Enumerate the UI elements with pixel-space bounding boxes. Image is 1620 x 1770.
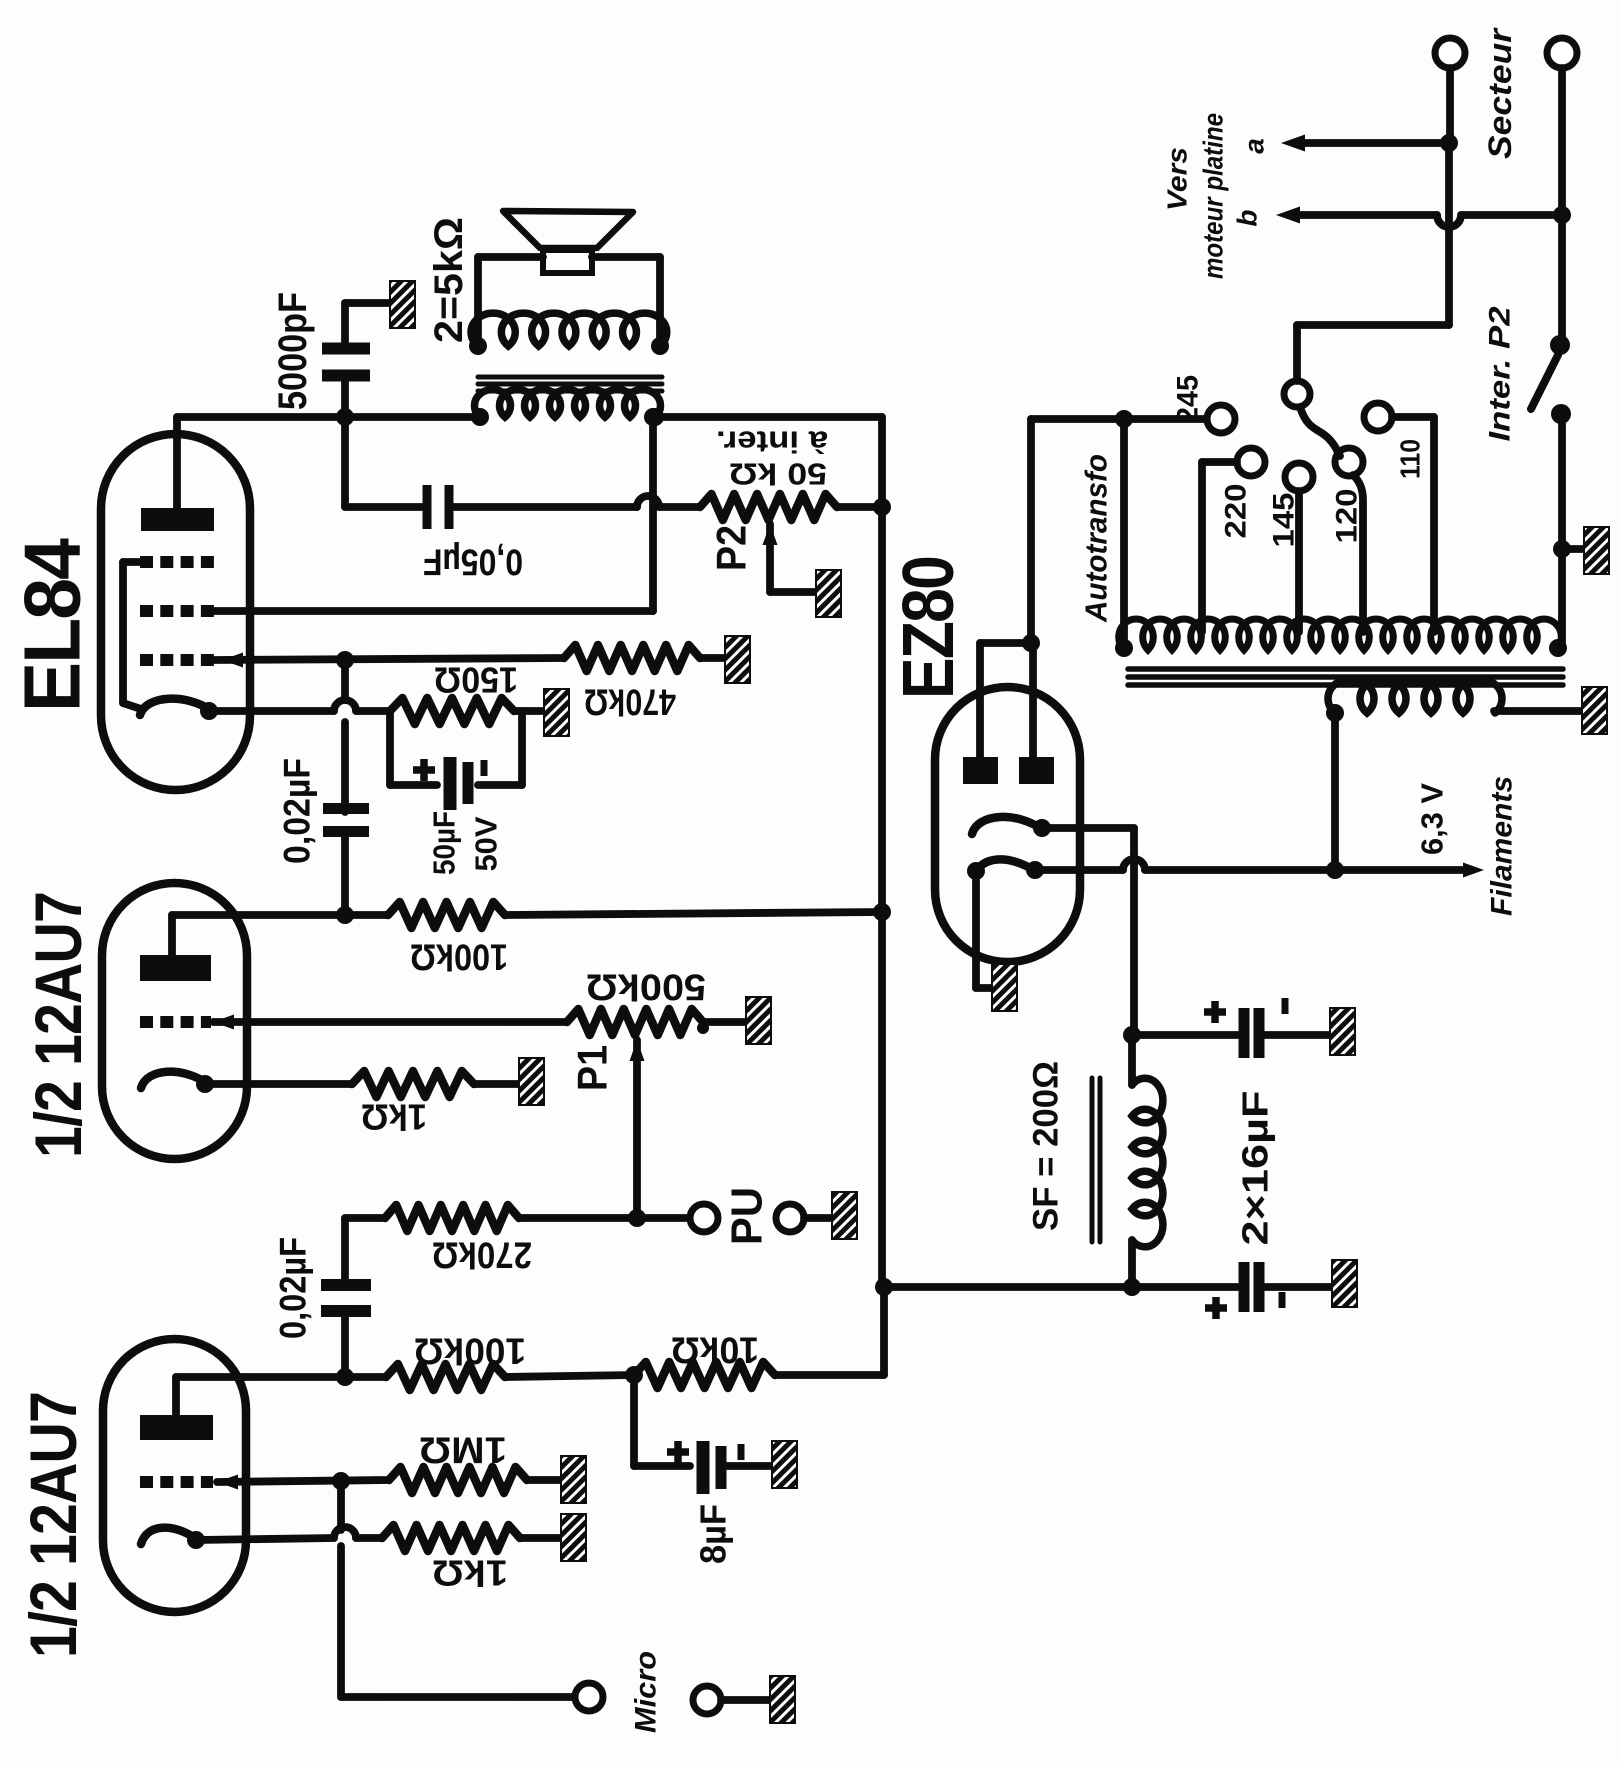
label 1MOhm <box>419 1430 507 1471</box>
label 50 kOhm <box>729 457 827 492</box>
autotransformer winding <box>1119 619 1562 650</box>
ground for 470k <box>725 636 750 683</box>
junction B+ rail bottom <box>875 1278 893 1296</box>
label 8uF <box>693 1504 734 1564</box>
svg-text:1kΩ: 1kΩ <box>432 1553 508 1594</box>
label 100kOhm bot <box>414 1331 526 1372</box>
resistor 10k decoupling <box>634 1362 775 1388</box>
svg-text:2=5kΩ: 2=5kΩ <box>427 217 471 343</box>
tube 12AU7-b envelope <box>102 883 247 1159</box>
wire 8uF branch <box>634 1375 690 1466</box>
choke SF winding <box>1132 1078 1163 1247</box>
junction secondary right <box>651 337 669 355</box>
wire 470k to ground <box>700 654 725 662</box>
junction a <box>1440 134 1458 152</box>
svg-text:5000pF: 5000pF <box>271 292 315 410</box>
svg-text:10kΩ: 10kΩ <box>671 1330 759 1371</box>
wire secteur2 down <box>1558 68 1566 215</box>
choke SF wire bottom <box>1128 1240 1136 1287</box>
label 120 <box>1331 489 1364 544</box>
ground for filament winding <box>1582 687 1607 734</box>
wire PU gnd <box>804 1214 832 1222</box>
tube 12AU7-a envelope <box>103 1339 246 1612</box>
grid arrow 12AU7-a <box>217 1475 238 1490</box>
svg-text:100kΩ: 100kΩ <box>410 937 508 978</box>
label 6.3V <box>1415 783 1450 855</box>
wire mains ground stub <box>1562 545 1584 553</box>
svg-text:Secteur: Secteur <box>1482 27 1518 159</box>
capacitor 5000pF <box>322 303 390 417</box>
tube 12AU7-b anode lead <box>172 915 388 955</box>
terminal 110 <box>1364 403 1392 431</box>
minus sign cap2 <box>1279 1292 1286 1308</box>
tube EZ80 heater <box>975 859 1035 875</box>
wire secteur1 to selector <box>1445 143 1453 325</box>
ground for 150R <box>544 689 569 736</box>
wire 0.05uF to P2 <box>451 503 700 511</box>
label 500kOhm <box>586 967 706 1008</box>
label 470kOhm <box>584 682 676 723</box>
resistor 1k (12AU7-b cathode) <box>352 1071 474 1097</box>
svg-text:110: 110 <box>1395 439 1426 479</box>
wire P2 to B+ rail <box>837 503 882 511</box>
label 245 <box>1172 375 1205 423</box>
resistor 1M grid leak <box>389 1467 527 1493</box>
svg-text:0,02µF: 0,02µF <box>277 758 318 864</box>
wire cap to 270k <box>345 1214 385 1222</box>
label PU <box>723 1187 772 1245</box>
ground for 8uF <box>772 1441 797 1488</box>
label Micro <box>630 1651 663 1733</box>
grid arrow 12AU7-b <box>213 1015 234 1030</box>
junction filament winding left <box>1326 704 1344 722</box>
junction g1/coupling cap <box>336 651 354 669</box>
wire screen g2 to B+ <box>214 417 653 611</box>
label 110 <box>1395 439 1426 479</box>
ground for mains <box>1584 527 1609 574</box>
label 1kOhm bot <box>432 1553 508 1594</box>
tube 12AU7-a cathode <box>141 1528 198 1544</box>
svg-text:245: 245 <box>1172 375 1205 423</box>
wire primary right to B+ rail corner <box>655 413 882 421</box>
junction 6.3V/filament winding <box>1326 861 1344 879</box>
speaker frame left <box>478 257 543 346</box>
junction secondary left <box>469 337 487 355</box>
junction EZ80 cathode <box>1033 819 1051 837</box>
junction P1 right <box>697 1022 709 1034</box>
wire EZ80 anodes to 245V tap <box>1031 419 1124 643</box>
svg-text:120: 120 <box>1331 489 1364 544</box>
transformer core laminations <box>478 377 662 391</box>
wire 0.05uF branch <box>345 417 425 507</box>
junction b <box>1553 206 1571 224</box>
switch Inter P2 top contact <box>1550 215 1570 355</box>
svg-text:Autotransfo: Autotransfo <box>1079 454 1114 623</box>
svg-text:1/2 12AU7: 1/2 12AU7 <box>21 892 95 1158</box>
capacitor 0.02uF coupling top <box>323 660 369 915</box>
selector S-curve to 120 tap <box>1300 407 1340 456</box>
svg-text:1/2 12AU7: 1/2 12AU7 <box>16 1392 90 1658</box>
terminal PU hot <box>690 1204 718 1232</box>
label 5000pF <box>271 292 315 410</box>
svg-text:220: 220 <box>1220 484 1253 539</box>
junction heater left <box>967 862 985 880</box>
junction cathode-b dot <box>196 1075 214 1093</box>
junction grid-a/micro <box>332 1472 350 1490</box>
speaker frame right <box>592 257 660 346</box>
label 12AU7-a <box>16 1392 90 1658</box>
label 2x16uF <box>1235 1091 1276 1246</box>
svg-text:Micro: Micro <box>630 1651 663 1733</box>
tube 12AU7-b grid (dashed) <box>140 1016 211 1028</box>
ground for cap2 <box>1332 1260 1357 1307</box>
speaker cone <box>503 211 633 248</box>
transformer primary winding <box>475 389 661 417</box>
wire tap 110 <box>1392 417 1434 632</box>
label 270kOhm <box>432 1235 532 1276</box>
label P1 <box>569 1045 616 1091</box>
label Filaments <box>1486 776 1519 916</box>
wire switch to winding end <box>1558 414 1562 650</box>
tube EZ80 anode leads <box>980 643 1033 757</box>
svg-text:500kΩ: 500kΩ <box>586 967 706 1008</box>
svg-text:moteur platine: moteur platine <box>1198 113 1229 279</box>
arrow filaments <box>1463 863 1484 878</box>
tube EZ80 anode 1 <box>963 757 998 784</box>
ground for 5000pF <box>390 281 415 328</box>
terminal 120 <box>1335 448 1363 476</box>
wire cap2 to ground <box>1265 1283 1332 1291</box>
capacitor 16uF no.2 <box>1244 1262 1259 1312</box>
speaker voice coil <box>543 250 592 273</box>
capacitor 16uF no.1 <box>1244 1008 1259 1058</box>
wire selector to mains <box>1297 325 1449 381</box>
terminal Micro gnd <box>693 1686 721 1714</box>
arrowhead a <box>1281 135 1305 152</box>
svg-text:100kΩ: 100kΩ <box>414 1331 526 1372</box>
junction choke/B rail <box>1123 1278 1141 1296</box>
junction cathode dot <box>200 702 218 720</box>
resistor 100k (12AU7-a plate load) <box>386 1364 505 1390</box>
tube 12AU7-a anode lead <box>176 1377 386 1415</box>
filament winding <box>1328 679 1502 713</box>
svg-text:6,3 V: 6,3 V <box>1415 783 1450 855</box>
label 12AU7-b <box>21 892 95 1158</box>
hop cathode over coupling-cap wire <box>334 700 356 711</box>
junction plate-b/coupling <box>336 906 354 924</box>
svg-text:50 kΩ: 50 kΩ <box>729 457 827 492</box>
label a <box>1239 138 1270 154</box>
plus sign cap1 <box>1204 1001 1226 1023</box>
terminal Secteur 1 <box>1435 38 1465 68</box>
wire 1k-b to ground <box>474 1080 519 1088</box>
wire heater to ground <box>976 871 992 988</box>
wire micro line <box>341 1481 575 1697</box>
wire grid-b to P1 <box>213 1018 567 1026</box>
svg-text:150Ω: 150Ω <box>434 660 518 701</box>
tube EL84 cathode <box>140 699 212 715</box>
tube EL84 anode plate <box>141 508 214 531</box>
svg-text:P2: P2 <box>708 525 755 571</box>
resistor 100k (12AU7-b plate load) <box>388 902 505 928</box>
potentiometer P1 500k element <box>567 1009 703 1035</box>
svg-text:Filaments: Filaments <box>1486 776 1519 916</box>
wire 1k-a to ground <box>520 1534 561 1542</box>
junction P1 wiper/PU line <box>628 1209 646 1227</box>
wire tap 120 <box>1353 475 1363 632</box>
label P2 <box>708 525 755 571</box>
svg-text:Inter. P2: Inter. P2 <box>1484 306 1517 441</box>
plus sign 8uF <box>667 1441 689 1463</box>
wire 100k to B+ rail <box>505 912 882 915</box>
label 1kOhm mid <box>361 1097 427 1138</box>
wire micro gnd <box>721 1696 770 1704</box>
wire arrow a <box>1296 139 1449 147</box>
wire autotransfo top <box>1120 419 1128 650</box>
ground for P2 wiper <box>816 570 841 617</box>
svg-text:P1: P1 <box>569 1045 616 1091</box>
svg-text:PU: PU <box>723 1187 772 1245</box>
junction plate-a/coupling <box>336 1368 354 1386</box>
junction autotransfo bottom end <box>1549 639 1567 657</box>
svg-text:à inter.: à inter. <box>716 425 828 460</box>
ground for P1 <box>746 997 771 1044</box>
tube 12AU7-b cathode <box>141 1072 208 1088</box>
label 2=5kOhm <box>427 217 471 343</box>
terminal Secteur 2 <box>1547 38 1577 68</box>
tube EL84 envelope <box>101 434 250 790</box>
tube 12AU7-a grid (dashed) <box>140 1476 213 1488</box>
minus sign 50uF <box>481 760 488 776</box>
ground for cap1 <box>1330 1008 1355 1055</box>
wire 270k to PU <box>519 1214 690 1222</box>
svg-text:SF = 200Ω: SF = 200Ω <box>1027 1061 1066 1231</box>
ground for PU <box>832 1192 857 1239</box>
label 0.02uF bottom <box>273 1237 314 1339</box>
svg-text:a: a <box>1239 138 1270 154</box>
wire filter node to cap1 <box>1132 1031 1239 1039</box>
junction filter node 1 <box>1123 1026 1141 1044</box>
resistor 470k <box>564 645 700 671</box>
wire filament winding right to ground <box>1494 707 1582 715</box>
terminal 245 <box>1207 405 1235 433</box>
ground for 1k-a <box>561 1514 586 1561</box>
label 145 <box>1268 493 1301 548</box>
wire 10k to B+ rail <box>775 1287 884 1375</box>
svg-text:EZ80: EZ80 <box>889 557 969 699</box>
junction primary right <box>646 408 664 426</box>
switch Inter P2 bottom contact <box>1551 404 1571 424</box>
label EZ80 <box>889 557 969 699</box>
label 220 <box>1220 484 1253 539</box>
junction plate/5000pF/0.05uF node <box>336 408 354 426</box>
label 0.05uF <box>423 542 523 583</box>
tube EL84 control grid g1 (dashed) <box>140 654 214 666</box>
tube EL84 suppressor grid g3 (dashed) <box>140 556 214 568</box>
tube EZ80 anode 2 <box>1019 757 1054 784</box>
junction 100k/B+ rail <box>873 903 891 921</box>
junction screen/primary right <box>644 408 662 426</box>
junction 10k/8uF node <box>625 1366 643 1384</box>
hop 6.3V over cathode wire <box>1123 859 1145 870</box>
svg-text:50µF: 50µF <box>427 811 462 875</box>
tube EZ80 cathode <box>972 817 1043 834</box>
tube EZ80 envelope <box>935 687 1080 962</box>
ground for EZ80 heater <box>992 964 1017 1011</box>
label Secteur <box>1482 27 1518 159</box>
transformer secondary winding <box>471 313 667 346</box>
plus sign cap2 <box>1205 1297 1227 1319</box>
hop over screen wire <box>637 496 659 507</box>
wire EZ80 cathode to filter <box>1042 828 1134 1035</box>
svg-text:270kΩ: 270kΩ <box>432 1235 532 1276</box>
tube 12AU7-b anode plate <box>140 955 211 981</box>
resistor 1k (12AU7-a cathode) <box>382 1525 520 1551</box>
tube EL84 screen grid g2 (dashed) <box>140 605 214 617</box>
minus sign cap1 <box>1282 998 1289 1014</box>
wire secteur1 down <box>1446 68 1454 143</box>
junction P2/B+ rail <box>873 498 891 516</box>
label EL84 <box>8 538 97 712</box>
label 50uF <box>427 811 462 875</box>
capacitor 50uF <box>450 757 468 810</box>
choke SF wire top <box>1128 1035 1136 1085</box>
switch Inter P2 lever <box>1531 355 1558 409</box>
label Autotransfo <box>1079 454 1114 623</box>
wire filament winding left down <box>1331 713 1339 870</box>
svg-text:Vers: Vers <box>1162 147 1193 211</box>
svg-text:2×16µF: 2×16µF <box>1235 1091 1276 1246</box>
label 10kOhm <box>671 1330 759 1371</box>
label Vers <box>1162 147 1193 211</box>
wire tap 220 <box>1202 462 1237 632</box>
wire 50uF parallel loop <box>390 711 522 785</box>
ground for 1M <box>561 1456 586 1503</box>
terminal 220 <box>1237 448 1265 476</box>
svg-text:b: b <box>1232 209 1263 226</box>
wire cathode-a to 1k <box>198 1538 382 1540</box>
wire cap1 to ground <box>1265 1031 1330 1039</box>
wire grid-a <box>217 1480 389 1482</box>
resistor 270k <box>385 1205 519 1231</box>
tube 12AU7-a anode plate <box>140 1415 213 1440</box>
terminal selector common <box>1284 381 1310 407</box>
svg-text:0,05µF: 0,05µF <box>423 542 523 583</box>
junction mains ground <box>1553 540 1571 558</box>
wire EL84 plate to output transformer <box>345 413 480 421</box>
ground for 1k-b <box>519 1058 544 1105</box>
tube EL84 anode lead <box>177 417 345 508</box>
wire B+ rail vertical <box>878 417 886 1287</box>
terminal PU gnd <box>776 1204 804 1232</box>
junction heater right <box>1026 861 1044 879</box>
plus sign 50uF <box>413 759 435 781</box>
label b <box>1232 209 1263 226</box>
wire g1 to 470k <box>214 658 564 660</box>
wire 1M to ground <box>527 1476 561 1484</box>
label SF 200 <box>1027 1061 1066 1231</box>
label 150Ohm <box>434 660 518 701</box>
junction autotransfo top <box>1115 639 1133 657</box>
arrowhead b <box>1276 207 1300 224</box>
label 0.02uF top <box>277 758 318 864</box>
terminal 145 <box>1285 463 1313 491</box>
svg-text:1kΩ: 1kΩ <box>361 1097 427 1138</box>
svg-text:8µF: 8µF <box>693 1504 734 1564</box>
terminal Micro hot <box>575 1683 603 1711</box>
ground for Micro <box>770 1676 795 1723</box>
junction EZ80 anodes <box>1022 634 1040 652</box>
potentiometer P2 50k element <box>700 494 837 520</box>
wire 8uF to ground <box>727 1462 772 1470</box>
label a inter. <box>716 425 828 460</box>
hop b-wire over vertical <box>1437 215 1461 227</box>
hop cathode-a over micro wire <box>334 1527 356 1538</box>
capacitor 0.05uF <box>427 485 449 529</box>
wire 6.3V rail <box>1035 866 1472 874</box>
tube EL84 g3-to-cathode link <box>123 562 145 709</box>
grid arrow EL84 <box>222 653 243 668</box>
minus sign 8uF <box>738 1444 745 1460</box>
junction 245 rail <box>1115 410 1133 428</box>
svg-text:0,02µF: 0,02µF <box>273 1237 314 1339</box>
capacitor 0.02uF coupling bottom <box>321 1218 371 1377</box>
svg-text:50V: 50V <box>469 816 504 871</box>
svg-text:EL84: EL84 <box>8 538 97 712</box>
label 100kOhm mid <box>410 937 508 978</box>
wire cathode-b to 1k <box>208 1080 352 1088</box>
capacitor 8uF <box>703 1441 721 1494</box>
potentiometer P2 wiper arrow <box>763 524 817 592</box>
wire B+ bottom rail <box>884 1283 1238 1291</box>
svg-text:470kΩ: 470kΩ <box>584 682 676 723</box>
junction primary left <box>471 408 489 426</box>
wire EL84 cathode to 150R <box>212 707 390 715</box>
svg-text:1MΩ: 1MΩ <box>419 1430 507 1471</box>
autotransformer core laminations <box>1128 669 1563 685</box>
choke SF core <box>1092 1078 1100 1242</box>
resistor 150R <box>390 698 514 724</box>
junction cathode-a dot <box>187 1531 205 1549</box>
label Inter P2 <box>1484 306 1517 441</box>
wire 100k-a to 10k node <box>505 1375 634 1377</box>
label moteur platine <box>1198 113 1229 279</box>
wire 150R to ground <box>514 707 544 715</box>
svg-text:145: 145 <box>1268 493 1301 548</box>
wire tap 145 <box>1295 491 1303 632</box>
wire arrow b <box>1291 211 1562 219</box>
potentiometer P1 wiper arrow <box>630 1040 645 1218</box>
wire P1 to ground <box>703 1018 746 1026</box>
label 50V <box>469 816 504 871</box>
wire 245 tap rail <box>1124 415 1206 423</box>
